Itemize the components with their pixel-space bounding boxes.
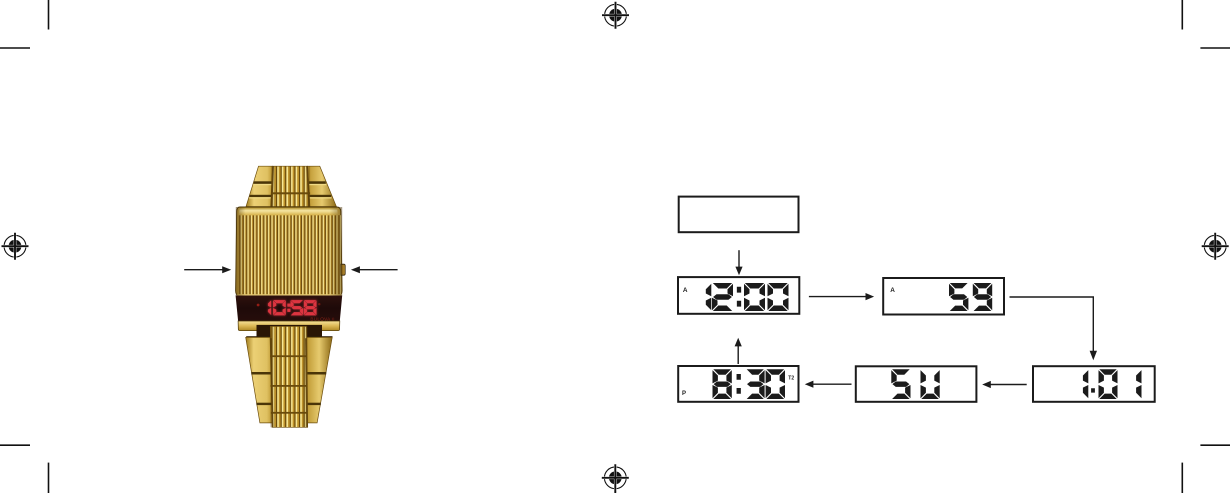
elbow connector box2 to box3 xyxy=(1010,297,1094,352)
svg-text:BULOVA ®: BULOVA ® xyxy=(310,316,334,321)
crop mark top-right xyxy=(1182,0,1230,48)
bottom bracelet xyxy=(246,326,333,427)
crop mark bottom-left xyxy=(0,445,49,493)
arrow box1 to box2 xyxy=(809,296,866,298)
digits 59 xyxy=(949,283,992,311)
digits SU xyxy=(891,369,939,399)
svg-text:A: A xyxy=(890,287,895,294)
indicator P xyxy=(682,391,686,397)
display box 8:30 xyxy=(678,366,798,402)
indicator T2 xyxy=(788,376,794,382)
crop mark top-left xyxy=(0,0,49,48)
top bracelet xyxy=(246,166,336,206)
display box 59 xyxy=(883,278,1004,315)
watch case xyxy=(236,207,343,296)
LED display band xyxy=(236,296,343,322)
registration mark bottom xyxy=(602,464,629,491)
crown button xyxy=(341,264,345,275)
display box SU xyxy=(856,366,977,402)
svg-text:P: P xyxy=(682,391,686,397)
right pusher arrow xyxy=(360,269,398,271)
dark recess under case xyxy=(257,325,323,338)
gold watch photo xyxy=(236,166,346,427)
arrow up from box4 to box1 xyxy=(737,345,739,364)
display box 1:01 xyxy=(1033,366,1155,402)
svg-text:A: A xyxy=(683,287,688,294)
LED digits 10:58 xyxy=(268,300,316,315)
registration mark right xyxy=(1202,233,1229,260)
svg-text:T2: T2 xyxy=(788,376,794,382)
digits 8:30 xyxy=(713,369,786,399)
display box 12:00 xyxy=(678,277,799,314)
empty instruction box xyxy=(679,197,799,233)
arrow box3 to SU xyxy=(990,384,1027,386)
BULOVA label xyxy=(310,316,334,321)
digits 12:00 xyxy=(706,283,789,311)
left pusher arrow xyxy=(184,269,222,271)
registration mark top xyxy=(602,2,629,29)
registration mark left xyxy=(2,233,29,260)
indicator A xyxy=(683,287,688,294)
arrow SU to box4 xyxy=(813,383,852,385)
arrow down from empty box xyxy=(738,250,740,267)
crop mark bottom-right xyxy=(1182,445,1230,493)
digits 1:01 xyxy=(1083,369,1142,399)
indicator A xyxy=(890,287,895,294)
red AM dot xyxy=(257,304,260,307)
case bottom strip xyxy=(238,321,340,338)
